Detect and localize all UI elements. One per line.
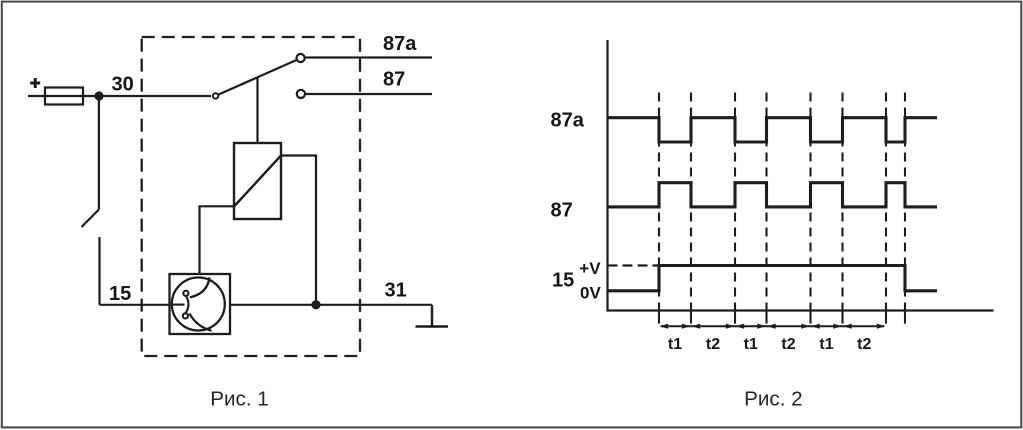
svg-text:Рис. 1: Рис. 1 <box>210 388 268 411</box>
svg-text:87: 87 <box>383 69 405 91</box>
svg-text:15: 15 <box>109 283 131 305</box>
wire 87 <box>306 93 433 95</box>
timing dashed grid lines <box>659 93 905 310</box>
contact 87 <box>297 90 305 98</box>
waveform 87a <box>608 118 938 142</box>
svg-text:+V: +V <box>579 259 601 278</box>
svg-text:87a: 87a <box>551 109 585 131</box>
waveform 15 <box>608 266 938 291</box>
svg-text:t2: t2 <box>706 336 720 353</box>
wire 31 <box>230 304 433 306</box>
svg-text:t2: t2 <box>857 336 871 353</box>
svg-text:t1: t1 <box>819 336 833 353</box>
battery plus terminal <box>30 78 40 88</box>
svg-text:Рис. 2: Рис. 2 <box>744 388 802 411</box>
flasher unit (thermal interrupter) <box>170 274 231 334</box>
svg-text:0V: 0V <box>580 283 601 302</box>
node: junction 30/switch branch <box>94 91 103 100</box>
grid tick stubs below axis <box>659 311 905 324</box>
switch armature blade <box>219 60 297 94</box>
svg-text:30: 30 <box>112 74 134 96</box>
contact 30 (movable contact pivot) <box>213 93 218 98</box>
fuse F1 <box>45 88 83 105</box>
svg-text:15: 15 <box>552 269 574 291</box>
timing diagram axes <box>606 40 993 311</box>
wire: supply feed 30 <box>28 95 211 97</box>
node: junction 31 <box>311 300 320 309</box>
ignition switch S1 <box>98 96 100 210</box>
ground <box>416 305 449 327</box>
relay coil K1 <box>234 143 281 219</box>
interval arrows t1..t2 <box>660 324 886 329</box>
svg-text:31: 31 <box>385 279 407 301</box>
wire: coil right terminal to node 31 <box>281 156 316 305</box>
contact 87a <box>297 54 305 62</box>
wire: armature link to coil <box>256 78 258 144</box>
svg-text:t1: t1 <box>744 336 758 353</box>
relay dashed enclosure <box>142 37 360 356</box>
dashed +V reference level <box>608 264 660 266</box>
svg-text:87a: 87a <box>383 33 417 55</box>
wire: coil left terminal to flasher <box>200 206 235 274</box>
waveform 87 <box>608 183 938 207</box>
svg-text:t1: t1 <box>668 336 682 353</box>
wire 15 <box>100 304 170 306</box>
svg-text:t2: t2 <box>781 336 795 353</box>
wire 87a <box>306 56 433 58</box>
svg-text:87: 87 <box>551 199 573 221</box>
